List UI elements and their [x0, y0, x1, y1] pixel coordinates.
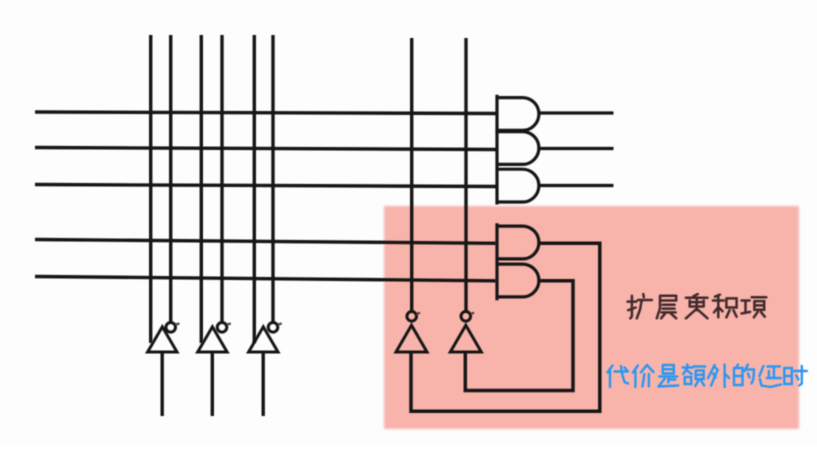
inverter U4 (expander feedback inverter 1)	[396, 312, 427, 353]
wire V2 (input complement column 1)	[169, 35, 172, 323]
AND gate G1	[496, 95, 614, 133]
wire V1 (input true column 1)	[149, 35, 152, 343]
wire H3 (AND array row 3)	[35, 185, 497, 187]
inverter U1 (input driver 1)	[148, 323, 180, 417]
wire feedback loop inner (G5 output to U5 input)	[465, 281, 573, 391]
AND gate G2	[496, 129, 614, 167]
wire H5 (AND array row 5)	[35, 277, 496, 281]
label 代价是额外的延时	[608, 365, 807, 388]
highlight region (expanded product term)	[384, 206, 799, 429]
wire H1 (AND array row 1)	[35, 112, 497, 114]
wire V8 (expander feedback column 2)	[464, 38, 467, 312]
wire V6 (input complement column 3)	[271, 35, 274, 323]
wire H2 (AND array row 2)	[35, 148, 497, 150]
wire V5 (input true column 3)	[253, 35, 256, 343]
wire V3 (input true column 2)	[200, 35, 203, 343]
AND gate G5 (expander)	[496, 261, 539, 300]
label 扩展乘积项	[628, 294, 767, 318]
AND gate G4 (expander)	[496, 223, 539, 263]
wire V7 (expander feedback column 1)	[410, 38, 413, 312]
inverter U3 (input driver 3)	[249, 323, 282, 417]
wire H4 (AND array row 4)	[35, 240, 496, 244]
wire V4 (input complement column 2)	[220, 35, 223, 323]
inverter U5 (expander feedback inverter 2)	[450, 312, 481, 353]
inverter U2 (input driver 2)	[198, 323, 231, 417]
wire feedback loop outer (G4 output to U4 input)	[411, 243, 600, 411]
AND gate G3	[496, 167, 614, 205]
